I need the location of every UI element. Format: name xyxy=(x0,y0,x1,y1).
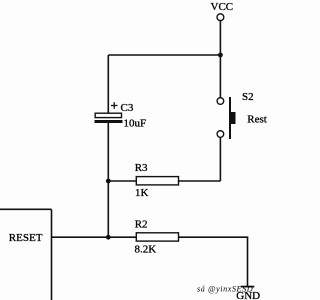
svg-text:R2: R2 xyxy=(135,218,148,230)
power VCC xyxy=(211,1,234,21)
svg-text:C3: C3 xyxy=(121,102,134,114)
svg-text:sá @yinxSESD: sá @yinxSESD xyxy=(197,285,253,294)
svg-text:10uF: 10uF xyxy=(124,117,147,129)
ground GND xyxy=(236,287,260,300)
switch S2 xyxy=(217,97,235,139)
svg-text:RESET: RESET xyxy=(9,232,43,244)
svg-text:8.2K: 8.2K xyxy=(135,244,157,256)
svg-text:VCC: VCC xyxy=(211,1,234,13)
wire R3 left xyxy=(108,180,136,182)
wire left rail bottom xyxy=(107,123,109,237)
wire R2 right xyxy=(179,236,249,238)
wire RESET pin to R2 xyxy=(52,236,137,238)
svg-text:Rest: Rest xyxy=(247,113,267,125)
IC box with RESET pin xyxy=(0,209,52,300)
wire right rail to switch xyxy=(219,55,221,98)
svg-text:1K: 1K xyxy=(135,187,149,199)
wire GND drop xyxy=(247,237,249,286)
wire VCC stem xyxy=(219,21,221,55)
node junction left rail at R2 xyxy=(106,235,111,240)
svg-text:S2: S2 xyxy=(242,91,254,103)
node junction left rail at R3 xyxy=(106,179,111,184)
resistor R2 xyxy=(136,233,178,241)
wire R3 right xyxy=(179,180,221,182)
wire top horizontal xyxy=(108,54,220,56)
capacitor C3 xyxy=(95,102,123,123)
svg-text:R3: R3 xyxy=(135,162,148,174)
wire left rail top xyxy=(107,55,109,114)
node junction at top right xyxy=(218,53,223,58)
wire switch bottom to R3 level xyxy=(219,138,221,182)
resistor R3 xyxy=(136,177,178,185)
